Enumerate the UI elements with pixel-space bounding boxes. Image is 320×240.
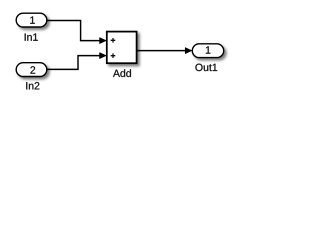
port number 1 inside Out1 [206,46,211,53]
wire from Add output to Out1 [137,50,186,52]
label Add [113,69,131,77]
label In1 [25,33,38,40]
outport block Out1 [192,44,223,58]
wire from In1 to Add input 1 [47,21,100,41]
arrowhead into Out1 [185,48,192,54]
port number 2 inside In2 [30,66,35,73]
label Out1 [195,64,217,71]
arrowhead into Add input 1 [100,38,107,44]
arrowhead into Add input 2 [100,53,107,59]
wire from In2 to Add input 2 [47,56,100,70]
inport block In2 [16,63,47,77]
plus sign at Add input 1 [111,38,116,43]
plus sign at Add input 2 [111,53,116,58]
port number 1 inside In1 [30,16,35,23]
label In2 [26,82,39,89]
inport block In1 [16,13,47,27]
sum block Add [107,32,137,64]
